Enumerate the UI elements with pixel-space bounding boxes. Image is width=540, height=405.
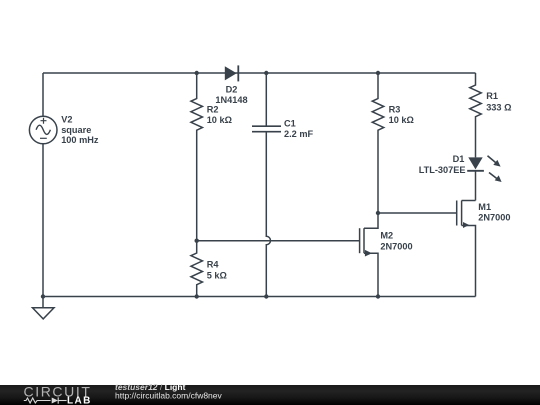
svg-text:http://circuitlab.com/cfw8nev: http://circuitlab.com/cfw8nev bbox=[115, 391, 223, 401]
svg-text:LAB: LAB bbox=[67, 395, 92, 405]
